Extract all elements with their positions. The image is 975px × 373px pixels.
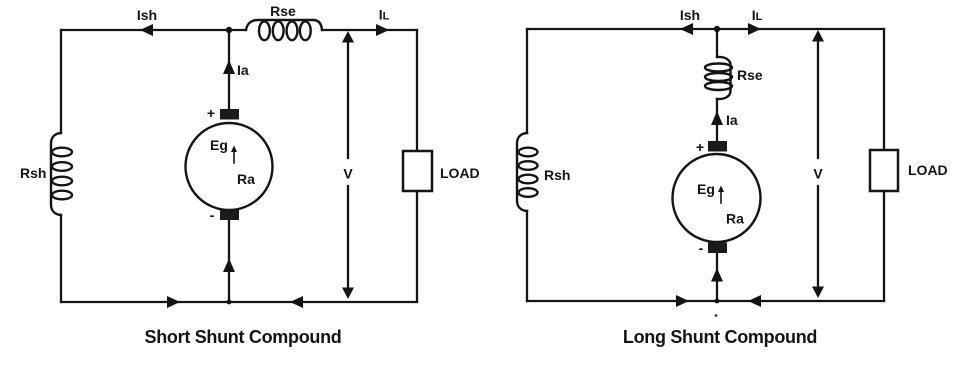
svg-text:LOAD: LOAD [440,165,480,181]
arrowhead V bottom (right circuit, pointing down) [812,287,824,299]
node junction dot bottom (left circuit) [227,300,232,305]
svg-text:Long Shunt Compound: Long Shunt Compound [623,327,817,347]
generator armature circle (right circuit) [673,154,761,242]
wire right-side lower (right circuit) [883,191,885,301]
wire bottom (left circuit) [61,301,417,303]
arrow Ish (left circuit, pointing left) [140,24,153,36]
arrow bottom-left (right circuit, pointing right) [676,295,689,307]
terminal minus block (right circuit) [708,243,727,254]
wire top-left segment (left circuit) [61,29,246,31]
load resistor rectangle (right circuit) [870,150,898,191]
inductor Rsh (shunt field, left circuit) [51,133,72,215]
svg-text:Rse: Rse [270,3,296,19]
node junction dot bottom (right circuit) [715,299,720,304]
node junction dot top (left circuit) [226,27,232,33]
wire top (right circuit) [527,28,884,30]
svg-text:Rsh: Rsh [544,167,570,183]
voltmeter arrow V upper segment (right circuit) [817,41,819,158]
inductor Rse (series field, right circuit) [705,57,732,99]
arrowhead V top (right circuit, pointing up) [812,30,824,42]
arrow Ia (left circuit, pointing up) [223,60,235,74]
svg-text:LOAD: LOAD [908,162,948,178]
arrowhead V bottom (left circuit, pointing down) [342,288,354,300]
wire right-side upper (right circuit) [883,29,885,150]
svg-text:Ra: Ra [726,211,744,227]
arrow bottom-left (left circuit, pointing right) [167,296,180,308]
voltmeter arrow V lower segment (right circuit) [817,186,819,287]
voltmeter arrow V lower segment (left circuit) [347,186,349,288]
terminal minus block (left circuit) [220,210,239,221]
svg-text:Short Shunt Compound: Short Shunt Compound [145,327,342,347]
arrow Ish (right circuit, pointing left) [680,23,693,35]
load resistor rectangle (left circuit) [403,151,432,191]
wire armature branch upper (left circuit) [228,30,230,110]
emf direction arrow inside armature (right circuit) [718,186,724,204]
emf direction arrow inside armature (left circuit) [231,146,237,164]
svg-text:+: + [696,139,704,155]
inductor Rsh (shunt field, right circuit) [517,133,538,211]
svg-text:V: V [813,166,823,182]
wire armature branch lower (right circuit) [716,253,718,301]
wire bottom (right circuit) [527,300,884,302]
arrow armature current up (left circuit bottom) [223,259,235,273]
arrow bottom-right (right circuit, pointing left) [748,295,761,307]
svg-text:Rsh: Rsh [20,165,46,181]
voltmeter arrow V upper segment (left circuit) [347,42,349,158]
arrowhead V top (left circuit, pointing up) [342,31,354,43]
svg-text:-: - [210,207,215,223]
wire right-side lower (left circuit) [416,191,418,302]
wire between Rse and armature (right circuit) [716,99,718,141]
svg-text:Eg: Eg [697,181,715,197]
svg-text:Ish: Ish [137,7,157,23]
svg-text:+: + [207,105,215,121]
svg-text:Rse: Rse [737,67,763,83]
wire top-right segment (left circuit) [322,29,417,31]
arrow IL (left circuit, pointing right) [376,24,389,36]
wire left-side upper (left circuit) [60,30,62,133]
wire left-side lower (right circuit) [526,211,528,301]
svg-text:Eg: Eg [210,137,228,153]
wire armature branch lower (left circuit) [228,220,230,302]
node junction dot top (right circuit) [714,26,720,32]
wire left-side lower (left circuit) [60,215,62,302]
svg-text:V: V [343,166,353,182]
arrow bottom-right (left circuit, pointing left) [290,296,303,308]
svg-text:Ia: Ia [237,62,249,78]
wire series branch from junction (right circuit) [716,29,718,57]
terminal plus block (left circuit) [220,109,239,120]
stray mark below bottom junction (right circuit) [715,314,718,317]
arrow armature current up (right circuit bottom) [711,268,723,282]
wire right-side upper (left circuit) [416,30,418,151]
svg-text:Ia: Ia [726,112,738,128]
arrow IL (right circuit, pointing right) [748,23,761,35]
generator armature circle (left circuit) [186,123,273,210]
svg-text:Ra: Ra [237,171,255,187]
arrow Ia (right circuit, pointing up) [711,111,723,125]
inductor Rse (series field, left circuit) [246,20,322,40]
terminal plus block (right circuit) [708,141,727,152]
svg-text:-: - [699,240,704,256]
wire left-side upper (right circuit) [526,29,528,133]
svg-text:Ish: Ish [680,7,700,23]
